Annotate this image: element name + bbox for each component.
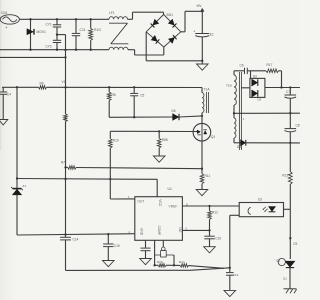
svg-text:V1: V1 — [62, 80, 66, 84]
svg-text:VREF: VREF — [169, 205, 178, 209]
svg-text:OUT: OUT — [137, 199, 144, 203]
svg-text:U2: U2 — [258, 198, 262, 202]
svg-text:C12: C12 — [233, 273, 239, 277]
svg-text:COMP: COMP — [157, 226, 161, 236]
svg-text:C8: C8 — [296, 123, 300, 127]
svg-text:Q2: Q2 — [276, 258, 280, 262]
svg-text:R11: R11 — [205, 174, 211, 178]
svg-text:R12: R12 — [212, 211, 218, 215]
svg-text:E1: E1 — [210, 33, 214, 37]
svg-text:ISE: ISE — [178, 227, 182, 232]
svg-text:MOV1: MOV1 — [37, 30, 47, 34]
svg-text:D3: D3 — [258, 98, 262, 102]
svg-text:GND: GND — [140, 228, 144, 236]
svg-text:T1A: T1A — [204, 88, 211, 92]
svg-text:(1): (1) — [283, 276, 287, 280]
svg-text:HV: HV — [197, 4, 203, 8]
svg-text:R1G: R1G — [94, 28, 101, 32]
svg-text:VCC: VCC — [158, 199, 162, 207]
svg-text:*: * — [6, 26, 8, 31]
svg-text:R6: R6 — [40, 81, 44, 85]
svg-text:CN1: CN1 — [1, 11, 8, 15]
svg-text:CY1: CY1 — [46, 22, 52, 26]
svg-text:R10: R10 — [113, 138, 119, 142]
svg-text:BD1: BD1 — [167, 13, 174, 17]
svg-text:C6: C6 — [240, 64, 244, 68]
svg-text:Q1: Q1 — [211, 135, 216, 139]
svg-text:C14: C14 — [73, 238, 79, 242]
svg-text:R17: R17 — [267, 63, 273, 67]
svg-text:R15: R15 — [157, 260, 163, 264]
svg-text:D2: D2 — [253, 74, 257, 78]
svg-text:CY2: CY2 — [46, 44, 52, 48]
svg-text:C4: C4 — [7, 92, 11, 96]
svg-text:R88: R88 — [162, 138, 168, 142]
svg-text:C5: C5 — [140, 94, 144, 98]
svg-text:R7: R7 — [61, 160, 65, 164]
svg-text:D4: D4 — [237, 145, 241, 149]
svg-text:D6: D6 — [172, 109, 176, 113]
svg-text:C15: C15 — [114, 244, 120, 248]
svg-text:Z1: Z1 — [23, 184, 27, 188]
svg-text:C7: C7 — [286, 90, 290, 94]
svg-text:+: + — [193, 30, 195, 34]
svg-text:C10: C10 — [215, 237, 221, 241]
svg-text:R8: R8 — [112, 93, 116, 97]
svg-text:R14: R14 — [179, 260, 185, 264]
svg-text:U1: U1 — [168, 187, 173, 191]
svg-text:C9: C9 — [293, 242, 297, 246]
svg-text:LF1: LF1 — [109, 11, 115, 15]
svg-text:T1B: T1B — [226, 83, 232, 87]
svg-text:R13: R13 — [282, 174, 288, 178]
svg-text:C11: C11 — [80, 28, 86, 32]
